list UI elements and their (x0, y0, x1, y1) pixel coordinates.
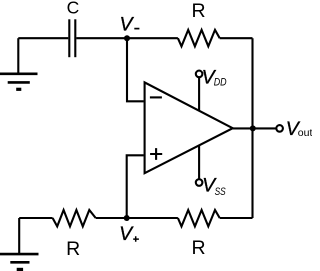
label node V- (120, 13, 140, 35)
terminal circle Vout (276, 125, 283, 132)
wire from bottom ground to bottom-left resistor (19, 217, 52, 219)
wire VDD supply (198, 77, 200, 111)
label node V+ (119, 223, 139, 245)
wire right rail (251, 38, 253, 218)
wire from V+ node up to op-amp non-inverting input (127, 155, 144, 218)
wire op-amp output to Vout terminal (233, 127, 277, 129)
wire VSS supply (198, 146, 200, 180)
ground GND2 bottom-left (0, 218, 39, 269)
wire from left ground to capacitor (18, 37, 68, 39)
svg-text:R: R (192, 0, 206, 22)
wire from bottom-right resistor to right rail (220, 217, 253, 219)
svg-text:out: out (298, 127, 312, 139)
svg-text:DD: DD (214, 77, 227, 89)
op-amp non-inverting input plus sign (150, 148, 162, 160)
op-amp inverting input minus sign (150, 96, 162, 98)
resistor R2 bottom-left (53, 210, 96, 226)
svg-text:SS: SS (215, 186, 227, 198)
svg-text:R: R (192, 237, 206, 259)
node V+ junction dot (124, 215, 130, 221)
node V- junction dot (124, 35, 130, 41)
wire from bottom-left resistor to V+ node (96, 217, 178, 219)
ground GND1 top-left (0, 38, 38, 89)
label Vout (286, 118, 313, 140)
label VDD (202, 66, 227, 88)
capacitor C (69, 19, 75, 57)
node Vout junction dot (250, 125, 256, 131)
svg-text:R: R (66, 238, 80, 260)
svg-text:C: C (67, 0, 80, 17)
wire from V- node down to op-amp inverting input (127, 38, 144, 101)
svg-text:V: V (120, 13, 135, 35)
wire from capacitor to top resistor (76, 37, 178, 39)
op-amp U1 triangle (145, 82, 233, 173)
terminal circle VSS (196, 179, 203, 186)
wire from top resistor to right rail corner (220, 37, 253, 39)
resistor R3 bottom-right (feedback to V+) (178, 210, 220, 226)
label VSS (202, 175, 226, 198)
terminal circle VDD (196, 71, 203, 78)
resistor R1 top (feedback) (178, 30, 220, 46)
svg-text:V: V (119, 223, 134, 245)
